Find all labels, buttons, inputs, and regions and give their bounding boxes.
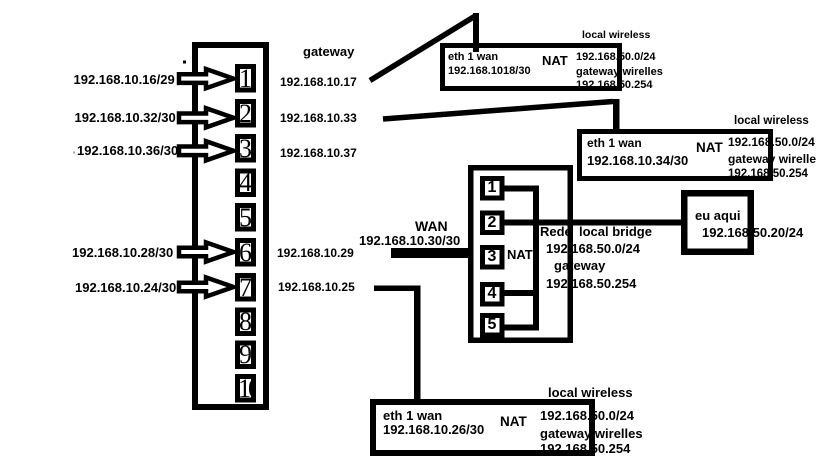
- wire WAN bar: [391, 248, 471, 258]
- NAT box2: [580, 132, 771, 179]
- arrow into port 6: [179, 242, 234, 261]
- switch port 10 box: [238, 377, 254, 401]
- router port digit 3: [480, 245, 504, 269]
- box1 label eth 1 wan: [448, 52, 498, 63]
- box3 label gateway wirelles: [540, 427, 643, 440]
- label 192.168.10.28/30: [72, 246, 173, 259]
- switch port 3 box: [238, 137, 254, 161]
- switch port digit 5: [235, 203, 256, 232]
- box3 label 192.168.50.0/24: [540, 409, 634, 422]
- label 192.168.10.25: [278, 281, 355, 293]
- eu aqui label: [695, 209, 741, 222]
- box3 label 192.168.50.254: [540, 442, 630, 455]
- label gateway: [303, 45, 354, 58]
- router label Rede: [540, 225, 572, 238]
- router label gateway: [554, 259, 605, 272]
- router label 192.168.50.254: [546, 277, 636, 290]
- box2 label NAT: [696, 141, 723, 155]
- router label local bridge: [579, 225, 652, 238]
- box1 label 192.168.50.0/24: [576, 52, 656, 63]
- switch port 5 box: [238, 206, 254, 230]
- label 192.168.10.33: [280, 112, 357, 124]
- box1 label 192.168.50.254: [576, 80, 652, 91]
- box2 label local wireless: [734, 116, 809, 128]
- wire diagonal from 192.168.10.17: [370, 16, 476, 81]
- wire stub port4: [504, 290, 539, 296]
- arrow into port 1: [179, 69, 234, 88]
- router port digit 4: [480, 282, 504, 306]
- wire vertical into box1: [473, 13, 479, 52]
- label 192.168.10.16/29: [74, 73, 175, 86]
- label WAN: [415, 219, 448, 233]
- NAT box3: [373, 402, 592, 453]
- switch port digit 6: [235, 238, 256, 267]
- box2 label gateway wirelles: [728, 153, 816, 165]
- box2 label 192.168.50.254: [728, 169, 808, 181]
- label 192.168.10.17: [280, 76, 357, 88]
- box1 label 192.168.1018/30: [448, 66, 531, 77]
- switch port digit 9: [235, 341, 256, 370]
- switch port 4 box: [238, 171, 254, 195]
- router port 1 box: [483, 179, 503, 199]
- label 192.168.10.24/30: [75, 281, 176, 294]
- label 192.168.10.29: [277, 247, 354, 259]
- router label 192.168.50.0/24: [546, 242, 640, 255]
- switch port digit 8: [235, 308, 256, 337]
- switch port 8 box: [238, 310, 254, 334]
- switch port 7 box: [238, 276, 254, 300]
- wire vertical into box3: [414, 286, 421, 403]
- switch port digit 4: [235, 169, 256, 198]
- switch port 6 box: [238, 241, 254, 265]
- wire vertical into box2: [613, 99, 620, 133]
- NAT box1: [443, 46, 620, 89]
- wire stub port2: [504, 220, 539, 226]
- arrow into port 2: [179, 108, 234, 127]
- label 192.168.10.36/30: [77, 144, 178, 157]
- wire horizontal from 192.168.10.25: [374, 286, 418, 292]
- wire diagonal from 192.168.10.33: [383, 102, 613, 120]
- router port digit 5: [480, 313, 504, 337]
- wire stub port1: [504, 186, 539, 192]
- switch port digit 7: [235, 273, 256, 302]
- router port 5 box: [483, 316, 503, 336]
- wire inner vertical connector: [533, 186, 539, 331]
- switch port 2 box: [238, 102, 254, 126]
- switch port digit 10: [235, 374, 256, 403]
- router port 2 box: [483, 213, 503, 233]
- label 192.168.10.32/30: [75, 111, 176, 124]
- box3 label NAT: [500, 415, 527, 429]
- switch SW1 outer box: [195, 45, 266, 407]
- eu aqui label 192.168.50.20/24: [702, 226, 803, 239]
- arrow into port 3: [179, 141, 234, 160]
- router port 3 box: [483, 248, 503, 268]
- switch port 9 box: [238, 343, 254, 367]
- eu aqui box: [684, 193, 751, 252]
- box3 label local wireless: [548, 386, 633, 399]
- box1 label local wireless: [582, 30, 650, 41]
- box2 label eth 1 wan: [587, 137, 642, 149]
- stray faint dot: [73, 152, 75, 154]
- switch port digit 3: [235, 134, 256, 163]
- box1 label gateway wirelles: [576, 67, 663, 78]
- wire stub port5: [504, 325, 539, 331]
- switch port digit 2: [235, 99, 256, 128]
- router label NAT: [507, 248, 533, 261]
- box2 label 192.168.10.34/30: [587, 154, 688, 167]
- wire bridge to eu aqui: [504, 220, 684, 226]
- router port digit 1: [480, 176, 504, 200]
- label 192.168.10.37: [280, 147, 357, 159]
- router port 4 box: [483, 285, 503, 305]
- box2 label 192.168.50.0/24: [728, 136, 815, 148]
- router port digit 2: [480, 211, 504, 235]
- switch port 1 box: [238, 67, 254, 91]
- stray dot: [183, 61, 186, 64]
- box3 label eth 1 wan: [383, 409, 442, 422]
- router box: [471, 168, 571, 341]
- arrow into port 7: [179, 277, 234, 296]
- switch port digit 1: [235, 64, 256, 93]
- box3 label 192.168.10.26/30: [383, 423, 484, 436]
- box1 label NAT: [542, 54, 568, 67]
- label 192.168.10.30/30: [359, 234, 460, 247]
